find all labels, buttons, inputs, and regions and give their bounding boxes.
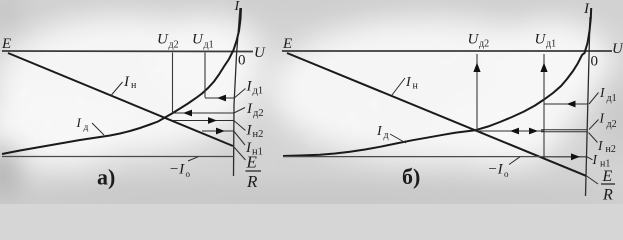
svg-text:0: 0 bbox=[238, 53, 246, 69]
svg-text:д1: д1 bbox=[546, 39, 556, 50]
svg-text:д1: д1 bbox=[253, 86, 264, 97]
svg-text:E: E bbox=[602, 168, 613, 185]
svg-text:д2: д2 bbox=[479, 39, 489, 50]
svg-text:I: I bbox=[246, 79, 253, 95]
svg-text:н2: н2 bbox=[253, 129, 264, 140]
svg-text:R: R bbox=[602, 187, 613, 204]
svg-text:о: о bbox=[504, 169, 509, 179]
svg-text:U: U bbox=[192, 32, 204, 48]
svg-text:I: I bbox=[246, 123, 253, 139]
svg-text:E: E bbox=[282, 36, 292, 52]
svg-text:−I: −I bbox=[488, 162, 504, 178]
svg-text:U: U bbox=[535, 32, 547, 48]
svg-text:R: R bbox=[246, 172, 258, 191]
svg-text:E: E bbox=[246, 153, 258, 172]
svg-text:о: о bbox=[186, 169, 191, 179]
svg-text:д: д bbox=[384, 130, 389, 141]
svg-text:а): а) bbox=[97, 165, 115, 190]
svg-text:0: 0 bbox=[591, 54, 599, 70]
svg-text:U: U bbox=[157, 32, 169, 48]
svg-text:I: I bbox=[246, 101, 253, 117]
svg-text:д: д bbox=[84, 123, 89, 133]
svg-text:I: I bbox=[583, 1, 590, 17]
svg-text:н2: н2 bbox=[606, 144, 616, 155]
svg-text:U: U bbox=[254, 45, 266, 61]
svg-text:E: E bbox=[1, 36, 11, 52]
svg-text:д2: д2 bbox=[607, 119, 617, 130]
svg-text:д1: д1 bbox=[607, 93, 617, 104]
svg-text:д1: д1 bbox=[204, 40, 214, 51]
svg-text:б): б) bbox=[402, 164, 420, 189]
svg-text:U: U bbox=[468, 32, 480, 48]
svg-text:I: I bbox=[76, 115, 82, 130]
svg-text:д2: д2 bbox=[169, 40, 179, 51]
svg-text:I: I bbox=[123, 74, 130, 90]
svg-text:U: U bbox=[612, 41, 623, 57]
svg-text:д2: д2 bbox=[253, 108, 264, 119]
svg-text:−I: −I bbox=[169, 162, 185, 178]
svg-text:н: н bbox=[131, 80, 137, 91]
svg-text:н: н bbox=[413, 81, 419, 92]
